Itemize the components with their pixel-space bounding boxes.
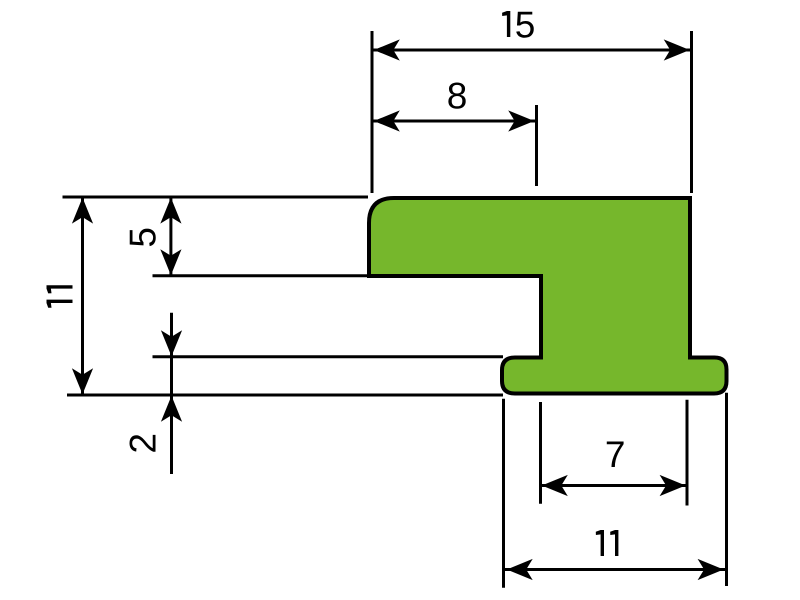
arrow right of dim 8 (508, 110, 534, 131)
extension line right of dim 8 (535, 105, 538, 186)
label 15 (502, 5, 535, 46)
arrow bottom of dim 11 left (72, 368, 93, 394)
arrow up of dim 2 (161, 396, 182, 422)
extension line right of dim 15 (690, 31, 693, 193)
dimension line 8 (372, 110, 537, 131)
svg-text:5: 5 (122, 227, 163, 248)
level line top of foot (153, 355, 504, 358)
extension line below stem left (539, 402, 542, 504)
arrow left of dim 8 (374, 110, 400, 131)
dimension line 11 bottom (504, 559, 727, 580)
dimension line 2 lower arrow (161, 396, 182, 422)
arrow down of dim 2 (161, 330, 182, 356)
svg-text:7: 7 (605, 434, 626, 475)
arrow right of dim 11 bottom (698, 559, 724, 580)
label 11 left (47, 285, 73, 308)
svg-text:8: 8 (447, 76, 468, 117)
arrow left of dim 15 (374, 39, 400, 60)
label 11 bottom (596, 530, 619, 556)
dimension line 7 (541, 475, 688, 496)
dimension line 11 left (72, 197, 93, 395)
level line bottom of arm (153, 274, 371, 277)
arrow right of dim 15 (664, 39, 690, 60)
extension line below foot right (725, 393, 728, 586)
extension line below foot left (502, 399, 505, 588)
arrow top of dim 11 left (72, 198, 93, 224)
arrow bottom of dim 5 (160, 249, 181, 275)
level line bottom of foot (67, 394, 503, 397)
svg-text:5: 5 (515, 5, 536, 46)
level line top of profile (63, 196, 369, 199)
arrow left of dim 7 (542, 475, 568, 496)
dimension line 5 (160, 197, 181, 276)
arrow left of dim 11 bottom (507, 559, 533, 580)
dimension line 2 upper arrow (161, 313, 182, 474)
svg-text:2: 2 (122, 433, 163, 454)
dimension line 15 (372, 39, 692, 60)
extension line below stem right (686, 400, 689, 506)
profile cross-section (green body) (369, 198, 727, 394)
arrow right of dim 7 (660, 475, 686, 496)
extension line left of dim 15/8 (371, 31, 374, 193)
arrow top of dim 5 (160, 198, 181, 224)
